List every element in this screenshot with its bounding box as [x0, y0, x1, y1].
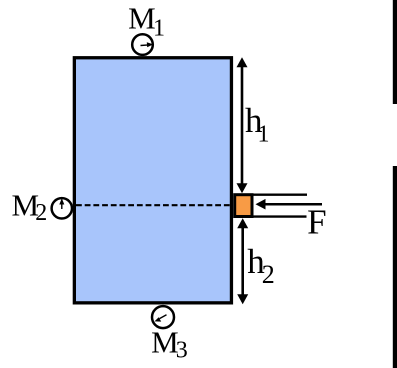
svg-text:2: 2: [262, 260, 275, 289]
svg-text:1: 1: [258, 121, 270, 147]
svg-text:M: M: [151, 325, 179, 360]
force F arrow: [263, 203, 322, 206]
svg-text:2: 2: [35, 200, 47, 226]
black bar top right: [393, 0, 397, 104]
svg-text:3: 3: [176, 338, 188, 364]
piston slot bottom line: [234, 215, 307, 217]
svg-text:F: F: [307, 203, 326, 242]
dimension h2 arrow: [241, 221, 244, 302]
gauge M2: [52, 198, 72, 218]
dashed mid line: [76, 204, 233, 206]
black bar bottom right: [393, 166, 397, 368]
svg-text:1: 1: [153, 16, 165, 42]
gauge M3: [152, 306, 174, 328]
dimension h1 arrow: [241, 60, 244, 190]
gauge M1: [132, 34, 153, 55]
tank (blue rectangle): [74, 58, 231, 303]
piston slot top line: [234, 193, 308, 195]
piston (orange square): [235, 195, 252, 217]
svg-text:M: M: [128, 0, 156, 35]
